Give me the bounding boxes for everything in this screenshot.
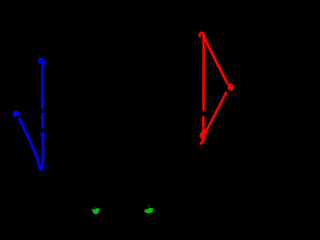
green dot above marker 2 [148,205,149,207]
red vertical edge segment B (bottom) [202,116,205,128]
red hook arrowhead at top [200,33,204,38]
blue vertical edge segment C (bottom) [41,133,44,164]
green dot above marker 1 [95,207,96,208]
blue round hook head at upper-left [13,111,20,118]
red bent arrowhead at right node [227,83,234,91]
red diagonal edge top node to right node [204,38,227,84]
blue barb dot right of top hook [44,61,46,63]
blue vertical edge segment A (top) [41,65,44,109]
red hook tail at bottom of vertical edge [201,137,204,144]
green marker 1 [92,208,100,215]
blue diagonal edge to upper-left node [18,117,40,164]
red vertical edge segment A (top) [202,36,205,111]
red arrowhead cluster at bottom node [200,128,208,140]
green marker 2 [144,208,153,213]
blue arrowhead at bottom junction [37,164,45,172]
notch in blue round head [16,116,18,119]
red diagonal edge right node to bottom node [206,92,226,131]
blue barb at top of segment B [44,113,46,115]
blue bump at top of segment C [40,133,45,137]
blue hook arrowhead at top of vertical edge [39,59,43,66]
blue vertical edge segment B (middle) [41,113,44,128]
blue barb dot right of bottom arrowhead [45,166,47,168]
